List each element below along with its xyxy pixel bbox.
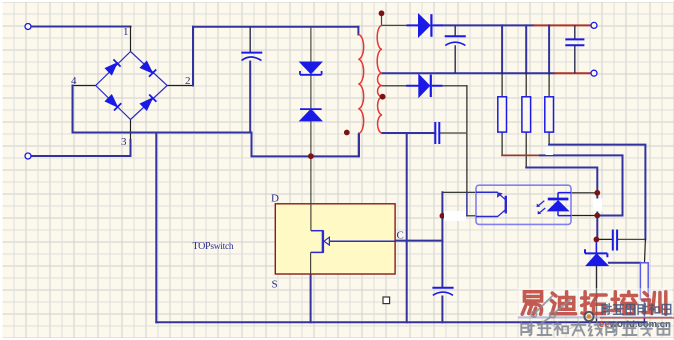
- wire R2 to opto cathode node: [526, 168, 597, 193]
- zener diode DZ: [585, 249, 608, 265]
- capacitor C4 series plates: [435, 122, 439, 144]
- wire opto cathode out: [571, 192, 597, 194]
- svg-text:TOPswitch: TOPswitch: [193, 241, 234, 252]
- wire opto emitter row y216: [442, 215, 476, 217]
- svg-text:1: 1: [123, 26, 129, 38]
- svg-text:3: 3: [121, 136, 127, 148]
- capacitor C2 plates: [445, 35, 466, 37]
- TOPswitch U1 body: [275, 204, 395, 274]
- wire zener top stub: [595, 239, 597, 252]
- wire snubber drop 1: [501, 25, 503, 73]
- watermark eeworld title: [602, 304, 671, 315]
- terminal J2 input bottom: [25, 153, 31, 159]
- resistor R4: [640, 263, 648, 299]
- wire opto collector row y192: [442, 191, 476, 193]
- junction dot floating near primary bottom: [344, 130, 350, 136]
- wire zener row right: [618, 238, 646, 240]
- optocoupler U2 led: [548, 193, 571, 216]
- white patch over net label 2: [593, 199, 603, 212]
- wire diode D8 out: [443, 85, 467, 87]
- wire jog down to y156: [252, 133, 360, 157]
- bridge rectifier B1 diamond: [96, 52, 168, 120]
- wire bottom ground rail: [156, 321, 646, 323]
- wire vertical x467: [466, 86, 468, 193]
- capacitor C2 output filter stubs: [454, 25, 456, 73]
- wire secondary tap rail y73: [382, 72, 554, 74]
- capacitor C1 lower stub: [249, 61, 251, 133]
- capacitor C3 plates: [565, 39, 584, 45]
- wire R3 to right edge drop: [549, 145, 645, 240]
- watermark big red text yiditop: [517, 288, 672, 318]
- junction dot opto cathode node: [594, 190, 600, 196]
- junction dot feedback x442: [440, 213, 446, 219]
- wire series cap to x467: [440, 132, 467, 134]
- wire zener row left: [596, 238, 612, 240]
- wire primary top stub: [357, 27, 359, 35]
- wire bridge pin1 vertical: [130, 27, 132, 52]
- svg-text:4: 4: [71, 75, 77, 87]
- wire left ground drop: [155, 133, 157, 323]
- resistor R2: [522, 97, 531, 132]
- svg-text:C: C: [397, 230, 404, 242]
- no-erc square marker: [383, 297, 390, 304]
- terminal J1 input top: [25, 24, 31, 30]
- wire C pin to x442: [395, 240, 442, 242]
- terminal J3 output top: [591, 22, 597, 28]
- wire drop to R4: [644, 239, 647, 262]
- clamp diode D6 pointing up: [300, 109, 322, 121]
- wire diode D7 out to red segment: [443, 24, 534, 26]
- capacitor C7 plates: [613, 230, 617, 251]
- wire secondary top to diode D7: [382, 24, 407, 26]
- bridge diode bottom-left (4 to 3): [105, 95, 121, 111]
- wire pin4 down: [72, 86, 74, 133]
- wire dc-minus horizontal y132: [73, 132, 252, 134]
- capacitor C5 plates: [432, 287, 453, 289]
- wire bridge pin3 vertical: [130, 120, 132, 142]
- resistor R3: [545, 97, 554, 132]
- junction dot secondary top: [379, 10, 385, 16]
- wire opto anode out: [571, 215, 597, 217]
- wire vertical x597: [596, 193, 598, 240]
- wire input top from terminal J1 to bridge pin1 corner: [31, 26, 131, 28]
- wire secondary top stub to dot: [381, 13, 383, 25]
- svg-text:D: D: [271, 193, 279, 205]
- diode D8 bias rectifier: [406, 75, 442, 97]
- watermark gray slogan: [521, 322, 669, 335]
- wire clamp diode stub from top rail: [310, 27, 312, 62]
- wire red to output terminal J4: [554, 72, 590, 74]
- wire brown segment y155: [502, 154, 540, 156]
- terminal J4 output bottom: [591, 70, 597, 76]
- wire between clamp diodes: [310, 75, 312, 109]
- wire snubber drop 3: [548, 25, 550, 73]
- optocoupler U2 phototransistor: [476, 192, 506, 216]
- wire x467 short vertical: [466, 192, 468, 216]
- bridge diode bottom-right (3 to 2): [140, 95, 156, 111]
- capacitor C1 bulk vertical stub: [249, 27, 251, 52]
- resistor R1: [498, 97, 507, 132]
- junction dot secondary mid: [380, 94, 386, 100]
- junction dot zener node: [594, 237, 600, 243]
- wire zener bottom to rail: [596, 266, 598, 323]
- bridge diode top-right (1 to 2): [140, 61, 156, 76]
- white patch over net label 3: [546, 147, 554, 156]
- bridge diode top-left (4 to 1): [105, 59, 120, 74]
- wire bias drop x406: [406, 133, 408, 322]
- optocoupler U2 body: [476, 185, 571, 224]
- wire R4 top horizontal: [609, 262, 641, 264]
- wire pin2 up: [192, 27, 194, 86]
- watermark logo strokes: [531, 295, 575, 329]
- wire bridge pin4 stub: [73, 85, 96, 87]
- wire secondary bottom to series cap: [382, 132, 434, 134]
- wire TOPswitch S pin: [310, 274, 312, 322]
- wire R3 bottom stub: [548, 132, 550, 145]
- wire cap C5 bottom to rail: [441, 297, 443, 323]
- wire feedback vertical x442: [441, 192, 443, 287]
- wire input bottom from terminal J2 to bridge pin3: [31, 155, 131, 157]
- wire R2 bottom stub: [525, 132, 527, 167]
- wire bridge pin2 stub: [167, 85, 193, 87]
- transformer T1 primary winding: [358, 35, 363, 134]
- white patch over net label 1: [444, 211, 466, 221]
- wire R4 bottom to rail: [643, 299, 645, 322]
- wire R1 bottom stub: [501, 132, 503, 155]
- wire primary bottom drop: [358, 134, 360, 157]
- wire top rail to transformer primary: [193, 26, 358, 28]
- watermark logo ring: [584, 312, 593, 321]
- clamp diode D5 pointing down: [300, 62, 322, 75]
- wire clamp bottom to D node: [310, 121, 312, 204]
- watermark light underline: [518, 316, 672, 318]
- capacitor C1 plates: [241, 52, 262, 54]
- TOPswitch U1 mosfet: [311, 204, 396, 274]
- optocoupler U2 light arrows: [537, 201, 546, 215]
- capacitor C3 output stubs: [574, 25, 576, 73]
- watermark eeworld red line: [600, 317, 674, 318]
- wire snubber drop 2: [525, 25, 527, 73]
- junction dot opto anode node: [594, 213, 600, 219]
- junction dot D node: [308, 153, 314, 159]
- transformer T1 secondary winding: [377, 25, 382, 133]
- wire y155 to x622 drop to opto anode node: [540, 155, 623, 215]
- wire secondary tap to diode D8: [383, 85, 407, 87]
- diode D7 output rectifier: [407, 14, 443, 37]
- wire red to output terminal J3: [534, 24, 591, 26]
- svg-text:S: S: [272, 279, 278, 291]
- svg-text:2: 2: [185, 75, 191, 87]
